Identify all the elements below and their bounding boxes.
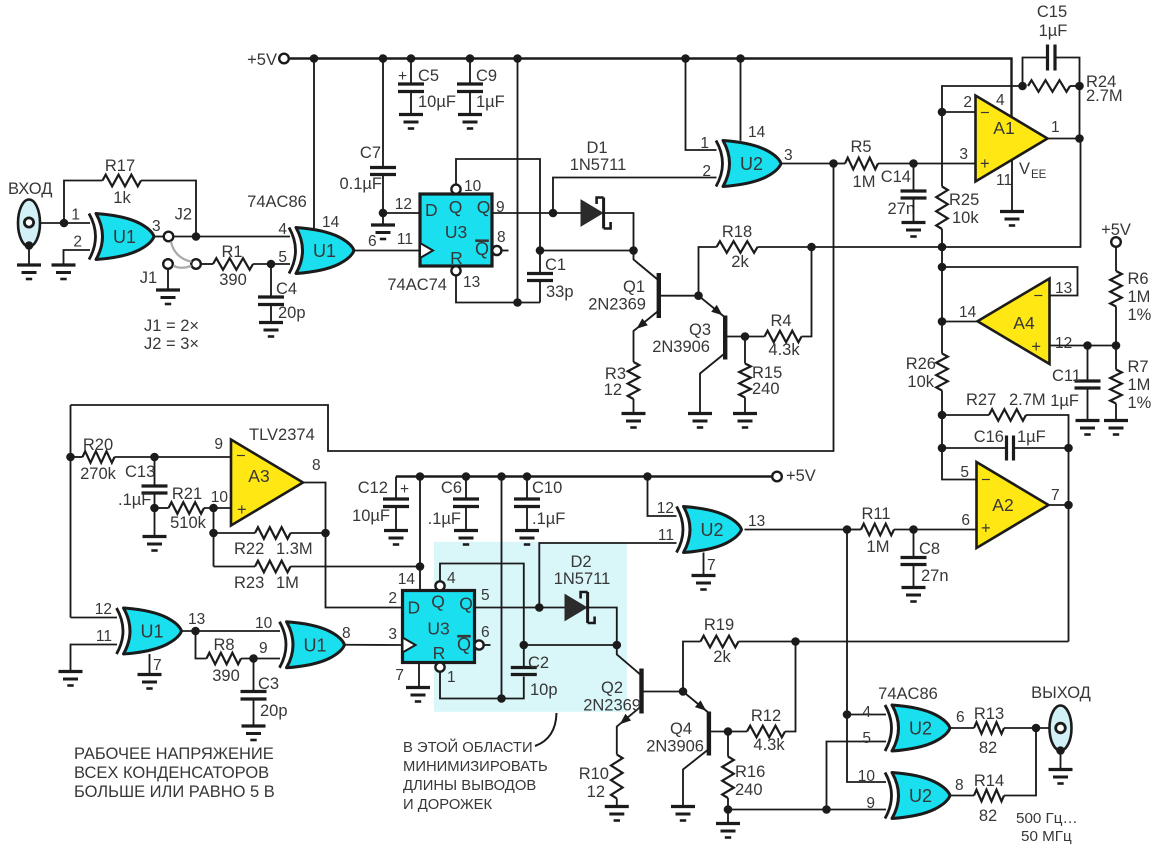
wire A3 out bbox=[303, 483, 403, 608]
svg-text:8: 8 bbox=[312, 457, 321, 474]
wire A4 pin12 bbox=[1050, 345, 1117, 347]
wire U1c out to U1d pin10 bbox=[182, 630, 281, 632]
resistor R7 (1M 1%) bbox=[1115, 346, 1117, 370]
svg-text:+: + bbox=[400, 481, 409, 498]
svg-text:12: 12 bbox=[95, 601, 112, 618]
svg-text:2.7M: 2.7M bbox=[1009, 391, 1046, 409]
svg-text:2N2369: 2N2369 bbox=[583, 697, 641, 715]
svg-text:ВЫХОД: ВЫХОД bbox=[1031, 684, 1091, 702]
svg-text:R14: R14 bbox=[974, 772, 1004, 790]
resistor R15 (240) bbox=[744, 337, 746, 364]
svg-text:Q3: Q3 bbox=[689, 321, 711, 339]
wire feedback row y247 bbox=[812, 139, 1081, 248]
svg-text:10k: 10k bbox=[952, 209, 979, 227]
svg-text:R6: R6 bbox=[1128, 270, 1149, 288]
wire U1b pin14 from rail bbox=[313, 59, 315, 229]
junction bbox=[694, 291, 703, 300]
wire stub to ground (pin12 node) bbox=[382, 213, 384, 224]
wire to D2 anode bbox=[539, 607, 565, 609]
wire U2c out bbox=[950, 727, 974, 729]
svg-text:A3: A3 bbox=[248, 466, 269, 486]
svg-text:240: 240 bbox=[735, 781, 763, 799]
ground (U1c pin7) bbox=[138, 673, 162, 676]
wire C8 bottom bbox=[913, 565, 915, 587]
svg-text:27n: 27n bbox=[921, 567, 949, 585]
wire A1 pin2 bbox=[942, 111, 976, 113]
svg-text:TLV2374: TLV2374 bbox=[249, 426, 315, 444]
wire column 942 (415-448) bbox=[941, 415, 943, 448]
svg-text:7: 7 bbox=[153, 657, 162, 674]
wire U1c pin12 bbox=[71, 617, 118, 619]
junction bbox=[1112, 341, 1121, 350]
svg-text:C9: C9 bbox=[476, 67, 497, 85]
junction bbox=[1075, 134, 1084, 143]
svg-text:V: V bbox=[1019, 160, 1030, 178]
wire pin1 loop bbox=[440, 672, 524, 699]
svg-text:Q: Q bbox=[477, 197, 491, 217]
svg-text:11: 11 bbox=[96, 628, 112, 645]
resistor R24 (2.7M) bbox=[1028, 80, 1070, 92]
svg-text:1N5711: 1N5711 bbox=[570, 156, 627, 174]
svg-text:3: 3 bbox=[784, 147, 793, 164]
junction bbox=[310, 54, 319, 63]
svg-text:1: 1 bbox=[71, 207, 80, 224]
ground (U3b pin7) bbox=[406, 686, 430, 689]
junction bbox=[681, 54, 690, 63]
svg-text:C11: C11 bbox=[1052, 367, 1081, 385]
wire C14 bottom bbox=[913, 198, 915, 222]
svg-text:R1: R1 bbox=[221, 243, 242, 261]
capacitor C5 (10uF) bbox=[398, 82, 424, 85]
ground (C12) bbox=[384, 529, 408, 532]
capacitor C1 (33p) bbox=[527, 272, 553, 275]
ground (Q4 collector) bbox=[671, 805, 695, 808]
svg-text:D2: D2 bbox=[570, 553, 591, 571]
svg-text:Q2: Q2 bbox=[601, 679, 623, 697]
resistor R10 (12) bbox=[611, 755, 623, 799]
svg-text:2k: 2k bbox=[731, 253, 749, 271]
junction bbox=[843, 525, 852, 534]
ground (R10) bbox=[605, 805, 629, 808]
ground (C9) bbox=[458, 113, 482, 116]
svg-text:4: 4 bbox=[996, 92, 1005, 109]
svg-text:2: 2 bbox=[73, 234, 82, 251]
wire C10 top bbox=[526, 477, 528, 498]
capacitor C13 (.1uF) bbox=[142, 484, 168, 487]
svg-text:6: 6 bbox=[481, 624, 490, 641]
junction bbox=[321, 529, 330, 538]
ground (C5) bbox=[399, 113, 423, 116]
svg-text:8: 8 bbox=[497, 229, 506, 246]
svg-text:33p: 33p bbox=[546, 283, 574, 301]
wire R8 right bbox=[241, 658, 280, 660]
resistor R25 (10k) bbox=[941, 112, 943, 187]
wire U3b pin14 from rail bbox=[419, 477, 421, 591]
svg-text:C15: C15 bbox=[1037, 3, 1067, 21]
junction bbox=[629, 246, 638, 255]
capacitor C3 (20p) bbox=[241, 690, 267, 693]
wire U1c pin11 to ground bbox=[71, 645, 118, 671]
capacitor C10 (.1uF) bbox=[514, 497, 540, 500]
svg-text:11: 11 bbox=[658, 527, 674, 544]
svg-text:2N3906: 2N3906 bbox=[652, 338, 710, 356]
svg-text:10: 10 bbox=[211, 489, 229, 506]
resistor R3 (12) bbox=[628, 362, 640, 399]
wire C6 bottom bbox=[465, 507, 467, 530]
wire C4 top bbox=[270, 264, 272, 296]
flip-flop U3b (74AC74) bbox=[403, 591, 475, 663]
svg-text:C4: C4 bbox=[276, 280, 297, 298]
svg-text:14: 14 bbox=[322, 214, 340, 231]
svg-text:R13: R13 bbox=[974, 705, 1004, 723]
wire R11 to A2 bbox=[894, 529, 977, 531]
svg-text:D: D bbox=[408, 598, 421, 618]
junction bbox=[938, 444, 947, 453]
wire U1a pin2 to ground bbox=[64, 250, 91, 265]
wire R4 branch down bbox=[802, 247, 812, 337]
svg-text:C8: C8 bbox=[919, 540, 940, 558]
svg-text:C5: C5 bbox=[418, 67, 439, 85]
svg-text:2: 2 bbox=[388, 590, 397, 607]
wire C6 top bbox=[465, 477, 467, 498]
+5V terminal (top left) bbox=[279, 54, 289, 64]
wire U2a pin1 from rail bbox=[686, 59, 717, 151]
junction bbox=[724, 727, 733, 736]
svg-text:74AC86: 74AC86 bbox=[247, 193, 307, 211]
wire C5 top bbox=[410, 59, 412, 84]
junction bbox=[536, 246, 545, 255]
junction bbox=[416, 562, 425, 571]
resistor R20 (270k) bbox=[71, 456, 83, 458]
junction bbox=[66, 453, 75, 462]
svg-text:.1µF: .1µF bbox=[532, 510, 565, 528]
svg-text:7: 7 bbox=[1051, 487, 1060, 504]
wire R17 right leg bbox=[141, 181, 196, 237]
junction bbox=[1083, 341, 1092, 350]
wire U3b pin7 stub bbox=[418, 663, 420, 687]
wire U2b pin11 drop bbox=[539, 543, 676, 608]
svg-text:8: 8 bbox=[342, 625, 351, 642]
junction bbox=[938, 411, 947, 420]
wire column 942 (267-321) bbox=[941, 267, 943, 322]
U3a pin8 terminal bbox=[492, 246, 501, 255]
wire R5 to A1 bbox=[878, 163, 976, 165]
junction bbox=[613, 641, 622, 650]
svg-text:20p: 20p bbox=[260, 702, 288, 720]
wire R27 right bbox=[1026, 415, 1069, 448]
svg-text:U2: U2 bbox=[700, 520, 723, 540]
junction bbox=[513, 54, 522, 63]
svg-text:1.3M: 1.3M bbox=[276, 540, 313, 558]
op-amp A1 bbox=[976, 96, 1048, 182]
svg-text:10: 10 bbox=[464, 178, 482, 195]
svg-text:13: 13 bbox=[463, 274, 480, 291]
xor gate U1c (74AC86) bbox=[124, 608, 182, 654]
U3a pin10 terminal bbox=[451, 185, 460, 194]
resistor R19 (2k) bbox=[701, 636, 739, 648]
junction bbox=[523, 472, 532, 481]
wire R21 right bbox=[204, 507, 231, 509]
wire U2c pin5 from gnd row bbox=[827, 742, 887, 810]
svg-text:−: − bbox=[980, 104, 990, 122]
ground (R16) bbox=[716, 822, 740, 825]
resistor R16 (240) bbox=[727, 732, 729, 757]
xor gate U1d (74AC86) bbox=[287, 622, 345, 668]
svg-text:Q: Q bbox=[449, 197, 463, 217]
junction bbox=[741, 332, 750, 341]
U3b clock triangle bbox=[403, 638, 416, 653]
capacitor C14 (27n) bbox=[901, 189, 927, 192]
wire U1b out to U3a CLK bbox=[354, 250, 420, 252]
svg-text:−: − bbox=[1033, 287, 1043, 305]
wire to D1 anode bbox=[553, 212, 581, 214]
resistor R8 (390) bbox=[207, 653, 242, 665]
svg-text:10: 10 bbox=[858, 768, 876, 785]
junction bbox=[791, 637, 800, 646]
ground (C4) bbox=[259, 321, 283, 324]
wire gnd row y809 bbox=[728, 809, 886, 811]
resistor R5 (1M) bbox=[834, 163, 846, 165]
svg-text:12: 12 bbox=[1055, 335, 1072, 352]
svg-text:J1 = 2×: J1 = 2× bbox=[144, 317, 199, 335]
junction bbox=[191, 627, 200, 636]
xor gate U1b (74AC86) bbox=[296, 228, 354, 274]
wire C12 bottom bbox=[395, 507, 397, 530]
diode D1 (1N5711 schottky) bbox=[581, 200, 603, 226]
svg-text:6: 6 bbox=[961, 512, 970, 529]
ground (pin12 node) bbox=[371, 223, 395, 226]
svg-text:R22: R22 bbox=[234, 540, 264, 558]
ground (R7) bbox=[1104, 419, 1128, 422]
ground (U2b pin7) bbox=[692, 574, 716, 577]
svg-text:И ДОРОЖЕК: И ДОРОЖЕК bbox=[403, 797, 493, 813]
svg-text:U2: U2 bbox=[909, 719, 932, 739]
junction bbox=[416, 472, 425, 481]
svg-text:J2: J2 bbox=[175, 206, 192, 224]
ground (C13) bbox=[143, 535, 167, 538]
wire R12 left bbox=[728, 731, 747, 733]
svg-text:Q: Q bbox=[459, 594, 473, 614]
wire R13 to output bbox=[1004, 727, 1050, 729]
svg-text:U1: U1 bbox=[303, 635, 326, 655]
svg-text:Q1: Q1 bbox=[623, 278, 645, 296]
wire C8 top bbox=[913, 530, 915, 557]
svg-text:+: + bbox=[981, 520, 991, 538]
wire +5V drop x517 bbox=[517, 59, 519, 303]
svg-text:1%: 1% bbox=[1128, 306, 1152, 324]
wire U2b out to R11 bbox=[745, 529, 848, 531]
svg-text:1M: 1M bbox=[1128, 288, 1151, 306]
wire C11 bottom bbox=[1087, 388, 1089, 420]
wire C1 top bbox=[539, 251, 541, 273]
ground (C6) bbox=[454, 529, 478, 532]
ground (output) bbox=[1049, 768, 1073, 771]
cyan highlight box (minimize-lead-length area) bbox=[434, 542, 627, 712]
svg-text:2N3906: 2N3906 bbox=[646, 738, 704, 756]
output connector ВЫХОД bbox=[1050, 706, 1072, 751]
wire R16 bottom bbox=[727, 798, 729, 810]
svg-text:D1: D1 bbox=[586, 139, 607, 157]
junction bbox=[1032, 724, 1041, 733]
U3b pin1 terminal bbox=[435, 663, 444, 672]
op-amp A2 bbox=[977, 462, 1049, 548]
svg-text:R7: R7 bbox=[1128, 358, 1149, 376]
wire D2 cathode bbox=[588, 608, 617, 646]
wire pin4 loop bbox=[440, 564, 524, 646]
wire J1 to ground bbox=[167, 269, 169, 289]
xor gate U1a (74AC86) bbox=[96, 214, 154, 260]
wire A3 loop left bbox=[70, 405, 72, 457]
junction bbox=[249, 654, 258, 663]
capacitor C11 (1uF) bbox=[1075, 379, 1101, 382]
xor gate U2c (74AC86) bbox=[892, 705, 950, 751]
wire U2b pin12 from rail bbox=[648, 477, 677, 517]
svg-text:R: R bbox=[450, 248, 463, 268]
junction bbox=[267, 260, 276, 269]
resistor R21 (510k) bbox=[155, 507, 169, 509]
wire C3 top bbox=[253, 659, 255, 691]
wire U2b pin7 stub bbox=[703, 553, 705, 575]
svg-text:10µF: 10µF bbox=[418, 93, 456, 111]
junction bbox=[938, 263, 947, 272]
wire R1 to U1b pin5 bbox=[253, 263, 290, 265]
wire J2 to U1b pin4 bbox=[173, 236, 290, 238]
svg-text:U1: U1 bbox=[313, 241, 336, 261]
svg-text:J1: J1 bbox=[140, 269, 157, 287]
junction bbox=[379, 209, 388, 218]
svg-text:R27: R27 bbox=[966, 391, 996, 409]
svg-text:14: 14 bbox=[398, 571, 416, 588]
ground (R15) bbox=[733, 412, 757, 415]
resistor R26 (10k) bbox=[941, 322, 943, 354]
wire U2a out bbox=[781, 163, 834, 165]
wire U1c pin7 stub bbox=[149, 654, 151, 674]
svg-text:C7: C7 bbox=[360, 144, 381, 162]
wire +5V top rail bbox=[289, 59, 1012, 118]
svg-text:−: − bbox=[236, 447, 246, 465]
op-amp A4 bbox=[978, 279, 1050, 365]
wire Q to U2a pin2 bbox=[553, 178, 717, 214]
wire D1 cathode bbox=[604, 213, 634, 251]
wire R17 left leg bbox=[64, 181, 103, 224]
wire speedup row top bbox=[540, 250, 634, 252]
wire input to ground bbox=[28, 247, 30, 265]
svg-text:1µF: 1µF bbox=[476, 93, 505, 111]
ground (Q3 collector) bbox=[688, 412, 712, 415]
junction bbox=[1064, 501, 1073, 510]
svg-text:4: 4 bbox=[278, 221, 287, 238]
wire lower +5V rail bbox=[396, 475, 772, 477]
svg-text:A2: A2 bbox=[992, 495, 1013, 515]
wire R20 right bbox=[115, 456, 232, 458]
svg-text:R4: R4 bbox=[770, 312, 791, 330]
resistor R18 (2k) bbox=[717, 241, 758, 253]
junction bbox=[520, 641, 529, 650]
junction bbox=[535, 603, 544, 612]
svg-text:20p: 20p bbox=[278, 304, 306, 322]
svg-text:R17: R17 bbox=[105, 157, 135, 175]
svg-text:C12: C12 bbox=[358, 479, 388, 497]
wire U1a output to J2 bbox=[154, 236, 164, 238]
wire U2a pin14 from rail bbox=[740, 59, 742, 141]
svg-text:EE: EE bbox=[1031, 169, 1047, 181]
svg-text:.1µF: .1µF bbox=[118, 491, 151, 509]
svg-text:4: 4 bbox=[447, 570, 456, 587]
junction bbox=[209, 529, 218, 538]
svg-text:C10: C10 bbox=[532, 479, 562, 497]
xor gate U2a (74AC86) bbox=[723, 141, 781, 187]
wire y641 row bbox=[796, 641, 1069, 643]
svg-text:U1: U1 bbox=[113, 227, 136, 247]
svg-text:+5V: +5V bbox=[786, 467, 816, 485]
svg-text:7: 7 bbox=[395, 667, 404, 684]
wire C13 to ground bbox=[154, 508, 156, 536]
wire R15 to ground bbox=[744, 398, 746, 413]
svg-text:390: 390 bbox=[219, 271, 247, 289]
svg-text:МИНИМИЗИРОВАТЬ: МИНИМИЗИРОВАТЬ bbox=[403, 759, 548, 775]
svg-text:A1: A1 bbox=[993, 118, 1014, 138]
wire speedup row bottom bbox=[524, 644, 617, 646]
junction bbox=[150, 453, 159, 462]
+5V terminal (lower) bbox=[772, 472, 782, 482]
svg-text:14: 14 bbox=[959, 304, 977, 321]
wire C7 top bbox=[382, 59, 384, 167]
svg-text:27n: 27n bbox=[887, 200, 915, 218]
svg-text:U2: U2 bbox=[909, 786, 932, 806]
ground (J1) bbox=[156, 288, 180, 291]
capacitor C6 (.1uF) bbox=[453, 497, 479, 500]
wire C11 top bbox=[1087, 346, 1089, 380]
junction bbox=[549, 209, 558, 218]
junction bbox=[843, 710, 852, 719]
svg-text:R8: R8 bbox=[213, 636, 234, 654]
svg-text:Q4: Q4 bbox=[670, 720, 692, 738]
wire C10 bottom bbox=[526, 507, 528, 530]
svg-text:13: 13 bbox=[748, 513, 765, 530]
resistor R6 (1M 1%) bbox=[1115, 247, 1117, 271]
wire R18 right bbox=[758, 246, 812, 248]
wire A4 minus loop bbox=[942, 267, 1078, 296]
svg-text:1M: 1M bbox=[853, 173, 876, 191]
junction bbox=[829, 159, 838, 168]
wire C14 top bbox=[913, 164, 915, 190]
wire pin13 to +5V drop bbox=[456, 275, 540, 302]
svg-text:0.1µF: 0.1µF bbox=[339, 175, 382, 193]
svg-text:U3: U3 bbox=[427, 619, 449, 639]
svg-text:R5: R5 bbox=[850, 138, 871, 156]
svg-text:Q: Q bbox=[431, 592, 445, 612]
junction bbox=[407, 54, 416, 63]
input connector ВХОД bbox=[18, 200, 40, 247]
wire R24 left leg bbox=[942, 86, 1023, 112]
svg-text:74AC74: 74AC74 bbox=[387, 276, 447, 294]
junction bbox=[807, 243, 816, 252]
resistor R13 (82) bbox=[974, 722, 1004, 734]
wire A1 out bbox=[1048, 138, 1080, 140]
wire C13 top bbox=[154, 457, 156, 485]
wire C1 bottom bbox=[539, 281, 541, 303]
svg-text:1M: 1M bbox=[276, 574, 299, 592]
wire column 942 (247-267) bbox=[941, 247, 943, 267]
xor gate U2b (74AC86) bbox=[684, 507, 742, 553]
svg-text:240: 240 bbox=[752, 380, 780, 398]
wire A2 feedback column bbox=[1068, 448, 1070, 642]
resistor R23 (1M) bbox=[214, 566, 256, 568]
svg-text:6: 6 bbox=[956, 709, 965, 726]
wire C16 right bbox=[1014, 447, 1069, 449]
svg-text:500 Гц…: 500 Гц… bbox=[1016, 810, 1078, 827]
wire A1 out to feedback bbox=[1079, 86, 1081, 139]
